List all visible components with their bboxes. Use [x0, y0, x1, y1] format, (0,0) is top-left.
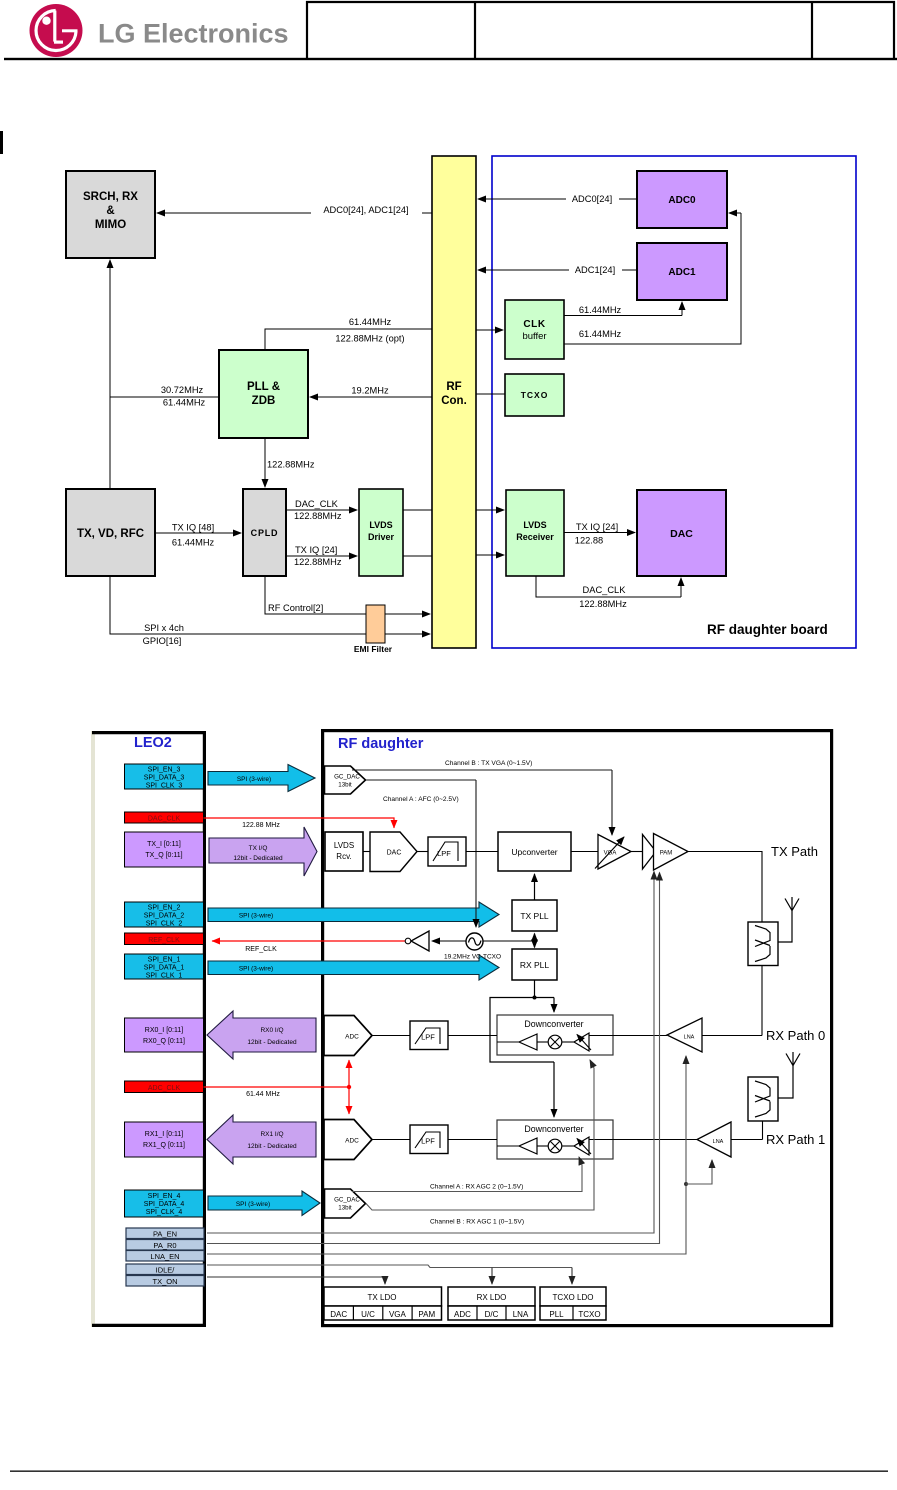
- svg-text:DAC: DAC: [330, 1310, 347, 1319]
- svg-text:LPF: LPF: [421, 1137, 435, 1146]
- block EMI Filter: [354, 605, 393, 654]
- wire RF connector to LVDS receiver: [476, 510, 504, 555]
- svg-text:SPI_DATA_2: SPI_DATA_2: [144, 913, 185, 920]
- svg-text:Rcv.: Rcv.: [336, 852, 351, 861]
- svg-text:SPI x 4ch: SPI x 4ch: [144, 623, 184, 633]
- wire LNA_EN control: [207, 1056, 712, 1254]
- svg-text:RX Path 1: RX Path 1: [766, 1132, 825, 1147]
- svg-text:PLL: PLL: [549, 1310, 564, 1319]
- svg-text:SPI (3-wire): SPI (3-wire): [239, 913, 273, 920]
- svg-text:LPF: LPF: [421, 1033, 435, 1042]
- svg-text:U/C: U/C: [361, 1310, 375, 1319]
- wire ADC0/ADC1 bus to SRCH: [157, 203, 432, 215]
- svg-text:12bit - Dedicated: 12bit - Dedicated: [247, 1039, 297, 1046]
- svg-text:122.88MHz (opt): 122.88MHz (opt): [335, 334, 404, 344]
- LEO2 frame: [91, 731, 206, 1327]
- svg-text:12bit - Dedicated: 12bit - Dedicated: [233, 855, 283, 862]
- svg-text:DAC: DAC: [670, 528, 693, 540]
- svg-text:Receiver: Receiver: [516, 532, 554, 542]
- amp LNA (RX1): [697, 1122, 731, 1157]
- bus arrow SPI (3-wire) #1: [208, 955, 499, 980]
- svg-text:LVDS: LVDS: [334, 841, 354, 850]
- RF daughter frame: [323, 731, 832, 1326]
- svg-text:&: &: [106, 205, 114, 217]
- svg-text:RX LDO: RX LDO: [477, 1293, 507, 1302]
- svg-text:SPI_EN_2: SPI_EN_2: [148, 905, 181, 912]
- block LVDS Receiver: [506, 490, 564, 576]
- svg-text:TX IQ [48]: TX IQ [48]: [172, 523, 214, 533]
- svg-text:SPI_CLK_4: SPI_CLK_4: [146, 1209, 183, 1216]
- converter DAC (TX): [370, 832, 417, 872]
- svg-text:VGA: VGA: [389, 1310, 407, 1319]
- wire TCXO to buffer: [432, 940, 466, 942]
- footer rule: [10, 1471, 888, 1472]
- converter GC_DAC 13bit (TX): [325, 766, 366, 794]
- svg-text:SPI_CLK_1: SPI_CLK_1: [146, 973, 183, 980]
- wire PLL to SRCH clocks: [110, 260, 219, 489]
- node DAC_CLK signal: [125, 812, 204, 823]
- wire CLK buffer to ADC1 61.44MHz: [564, 302, 682, 316]
- antenna (RX1): [778, 1052, 800, 1098]
- block RF Con. (yellow connector): [432, 156, 476, 648]
- wire RF Control[2]: [265, 576, 430, 614]
- svg-text:SPI_DATA_4: SPI_DATA_4: [144, 1201, 185, 1208]
- svg-text:RX0_I [0:11]: RX0_I [0:11]: [145, 1027, 183, 1034]
- svg-text:CLK: CLK: [523, 319, 546, 330]
- svg-text:LG Electronics: LG Electronics: [98, 19, 289, 49]
- svg-text:RX1_I [0:11]: RX1_I [0:11]: [145, 1131, 183, 1138]
- svg-text:GC_DAC: GC_DAC: [334, 1197, 360, 1204]
- svg-text:61.44MHz: 61.44MHz: [579, 329, 622, 339]
- svg-text:61.44 MHz: 61.44 MHz: [246, 1091, 280, 1098]
- svg-text:TX I/Q: TX I/Q: [249, 845, 268, 852]
- svg-text:LEO2: LEO2: [134, 735, 172, 751]
- wire REF_CLK (red): [212, 941, 405, 953]
- svg-text:RX PLL: RX PLL: [520, 960, 550, 970]
- wire duplexer to RX0 line: [761, 966, 763, 1036]
- svg-text:30.72MHz: 30.72MHz: [161, 385, 204, 395]
- node PA_EN: [126, 1228, 204, 1239]
- filter LPF (RX0): [410, 1021, 448, 1050]
- wire LPF to Upconverter: [466, 851, 498, 853]
- svg-text:Con.: Con.: [441, 395, 467, 407]
- node LNA_EN: [126, 1251, 204, 1262]
- buffer inverter (REF_CLK): [405, 931, 429, 951]
- svg-text:DAC: DAC: [387, 850, 402, 857]
- block TCXO LDO: [540, 1287, 606, 1320]
- filter LPF (RX1): [410, 1125, 448, 1154]
- wire TX PLL / RX PLL reference (double arrow): [534, 934, 536, 948]
- svg-text:LNA_EN: LNA_EN: [150, 1252, 179, 1261]
- svg-text:SPI (3-wire): SPI (3-wire): [236, 1201, 270, 1208]
- svg-text:TX_ON: TX_ON: [152, 1277, 177, 1286]
- svg-text:122.88: 122.88: [575, 536, 603, 546]
- block TX LDO: [324, 1287, 442, 1320]
- svg-text:GPIO[16]: GPIO[16]: [143, 636, 182, 646]
- svg-text:SPI_DATA_3: SPI_DATA_3: [144, 775, 185, 782]
- block LVDS Driver: [359, 489, 403, 576]
- block LVDS Rcv: [325, 832, 363, 871]
- svg-text:Driver: Driver: [368, 532, 395, 542]
- bus arrow TX I/Q dedicated: [209, 827, 317, 876]
- node REF_CLK signal: [125, 933, 204, 945]
- svg-text:ADC: ADC: [345, 1138, 359, 1145]
- left margin marker: [0, 131, 3, 154]
- svg-text:RF Control[2]: RF Control[2]: [268, 603, 323, 613]
- wire Channel B RX AGC 1: [366, 1060, 594, 1226]
- svg-text:PAM: PAM: [660, 851, 673, 857]
- svg-text:buffer: buffer: [522, 331, 546, 342]
- block TX, VD, RFC: [66, 489, 155, 576]
- wire ADC1 bus to RF connector: [478, 262, 637, 275]
- svg-text:ADC1[24]: ADC1[24]: [575, 265, 615, 275]
- header rule: [4, 58, 897, 60]
- block RX LDO: [448, 1287, 535, 1320]
- node SPI_3 signals: [125, 764, 204, 790]
- svg-text:TCXO LDO: TCXO LDO: [553, 1293, 594, 1302]
- svg-text:Channel A : AFC (0~2.5V): Channel A : AFC (0~2.5V): [383, 796, 459, 803]
- svg-text:122.88MHz: 122.88MHz: [294, 511, 342, 521]
- wire DAC_CLK loop to DAC: [536, 576, 681, 609]
- svg-text:TX_I [0:11]: TX_I [0:11]: [147, 841, 181, 848]
- wire DAC_CLK 122.88MHz (red): [204, 818, 395, 829]
- svg-text:PAM: PAM: [418, 1310, 435, 1319]
- bus arrow SPI (3-wire) #3: [208, 765, 315, 792]
- svg-text:TCXO: TCXO: [521, 390, 549, 400]
- svg-text:TCXO: TCXO: [578, 1310, 600, 1319]
- svg-text:SPI_DATA_1: SPI_DATA_1: [144, 965, 185, 972]
- svg-text:ADC0[24], ADC1[24]: ADC0[24], ADC1[24]: [323, 205, 408, 215]
- svg-text:ZDB: ZDB: [252, 395, 276, 407]
- svg-text:SRCH, RX: SRCH, RX: [83, 191, 138, 203]
- wire Channel A RX AGC 2: [352, 1157, 582, 1192]
- node IDLE/: [126, 1264, 204, 1275]
- bus arrow SPI (3-wire) #2: [208, 902, 499, 927]
- wire 19.2MHz to PLL: [310, 386, 432, 398]
- amp PAM: [643, 834, 689, 871]
- svg-text:TX IQ [24]: TX IQ [24]: [295, 545, 337, 555]
- svg-text:GC_DAC: GC_DAC: [334, 774, 360, 781]
- wire ADC0 bus to RF connector: [478, 191, 637, 204]
- LG logo: [30, 4, 83, 57]
- oscillator VC-TCXO: [444, 933, 501, 961]
- svg-text:DAC_CLK: DAC_CLK: [583, 585, 627, 595]
- svg-text:ADC1: ADC1: [668, 267, 696, 278]
- svg-text:SPI_EN_3: SPI_EN_3: [148, 767, 181, 774]
- wire LVDS receiver to DAC TX IQ: [564, 522, 635, 546]
- wire DAC to LPF: [417, 851, 428, 853]
- svg-text:Downconverter: Downconverter: [524, 1019, 583, 1029]
- wire PA_R0 control: [207, 873, 660, 1244]
- block TX PLL: [512, 900, 557, 931]
- wire VGA to PAM: [631, 851, 642, 853]
- node PA_R0: [126, 1240, 204, 1251]
- svg-text:RX1_Q [0:11]: RX1_Q [0:11]: [143, 1142, 185, 1149]
- svg-text:61.44MHz: 61.44MHz: [349, 317, 392, 327]
- block ADC1: [637, 243, 727, 300]
- RF daughter board frame (blue): [492, 156, 856, 648]
- svg-text:IDLE/: IDLE/: [156, 1266, 176, 1275]
- wire RX1 chain: [372, 1139, 763, 1141]
- wire ADC_CLK 61.44MHz (red): [204, 1060, 352, 1114]
- svg-text:PA_R0: PA_R0: [153, 1241, 176, 1250]
- wire PA_EN control: [207, 872, 654, 1234]
- amp LNA (RX0): [667, 1018, 702, 1052]
- svg-text:19.2MHz: 19.2MHz: [351, 386, 389, 396]
- block DAC: [637, 490, 726, 576]
- svg-text:ADC: ADC: [345, 1034, 359, 1041]
- converter ADC (RX0): [324, 1016, 372, 1056]
- svg-text:PA_EN: PA_EN: [153, 1230, 177, 1239]
- svg-text:RX Path 0: RX Path 0: [766, 1028, 825, 1043]
- svg-text:Channel A : RX AGC 2 (0~1.5V): Channel A : RX AGC 2 (0~1.5V): [430, 1184, 523, 1191]
- svg-text:RX1 I/Q: RX1 I/Q: [260, 1131, 283, 1138]
- wire 61.44MHz clock to PLL: [265, 317, 432, 350]
- svg-text:DAC_CLK: DAC_CLK: [148, 816, 181, 823]
- node SPI_2 signals: [125, 902, 204, 928]
- svg-text:LVDS: LVDS: [369, 520, 392, 530]
- svg-text:Channel B : RX AGC 1 (0~1.5V): Channel B : RX AGC 1 (0~1.5V): [430, 1219, 524, 1226]
- block PLL & ZDB: [219, 350, 308, 438]
- svg-text:Downconverter: Downconverter: [524, 1124, 583, 1134]
- svg-text:TX Path: TX Path: [771, 844, 818, 859]
- filter duplexer (TX/RX0): [748, 922, 778, 966]
- svg-text:ADC0: ADC0: [668, 195, 696, 206]
- converter ADC (RX1): [324, 1120, 372, 1160]
- svg-text:MIMO: MIMO: [95, 219, 126, 231]
- filter (RX1): [748, 1077, 778, 1121]
- svg-text:D/C: D/C: [485, 1310, 499, 1319]
- wire CPLD DAC_CLK to LVDS driver: [286, 499, 357, 521]
- wire SPI x 4ch GPIO[16]: [110, 576, 430, 646]
- block SRCH,RX & MIMO: [66, 171, 155, 258]
- wire PAM to antenna node: [688, 852, 762, 923]
- block CPLD: [243, 489, 286, 576]
- wire LVDS Rcv to DAC: [363, 851, 370, 853]
- svg-text:RX0 I/Q: RX0 I/Q: [260, 1027, 283, 1034]
- wire RX0 chain: [372, 1035, 762, 1037]
- svg-text:122.88MHz: 122.88MHz: [294, 557, 342, 567]
- svg-text:RF daughter board: RF daughter board: [707, 622, 828, 637]
- svg-text:SPI_CLK_3: SPI_CLK_3: [146, 783, 183, 790]
- svg-text:TX IQ [24]: TX IQ [24]: [576, 522, 618, 532]
- svg-text:CPLD: CPLD: [251, 528, 279, 538]
- svg-text:RX0_Q [0:11]: RX0_Q [0:11]: [143, 1038, 185, 1045]
- svg-text:TX LDO: TX LDO: [368, 1293, 397, 1302]
- block TCXO: [505, 374, 564, 416]
- bus arrow SPI (3-wire) #4: [208, 1191, 320, 1216]
- svg-text:LNA: LNA: [713, 1139, 724, 1145]
- block Downconverter 0: [497, 1015, 613, 1055]
- svg-text:122.88 MHz: 122.88 MHz: [242, 822, 280, 829]
- svg-text:13bit: 13bit: [338, 1205, 352, 1212]
- wire CLK buffer to ADC0 61.44MHz: [564, 213, 741, 344]
- svg-text:61.44MHz: 61.44MHz: [163, 398, 206, 408]
- amp VGA (TX): [595, 835, 631, 870]
- wire RF connector to TCXO: [476, 393, 505, 395]
- svg-text:13bit: 13bit: [338, 782, 352, 789]
- wire IDLE/ control: [207, 1265, 572, 1284]
- svg-text:Channel B : TX VGA (0~1.5V): Channel B : TX VGA (0~1.5V): [445, 760, 532, 767]
- svg-text:ADC_CLK: ADC_CLK: [148, 1085, 181, 1092]
- block Downconverter 1: [497, 1120, 613, 1159]
- wire PLL to CPLD 122.88MHz: [265, 438, 315, 487]
- svg-text:SPI_CLK_2: SPI_CLK_2: [146, 921, 183, 928]
- wire TX_ON control: [207, 1277, 385, 1284]
- svg-text:SPI (3-wire): SPI (3-wire): [237, 776, 271, 783]
- node RX0 I/Q signals: [125, 1018, 204, 1052]
- antenna (TX/RX0): [778, 897, 799, 942]
- converter GC_DAC 13bit (RX AGC): [325, 1189, 366, 1218]
- svg-text:TX_Q [0:11]: TX_Q [0:11]: [145, 852, 182, 859]
- block CLK buffer: [505, 300, 564, 359]
- node ADC_CLK signal: [125, 1081, 204, 1093]
- svg-text:122.88MHz: 122.88MHz: [267, 460, 315, 470]
- svg-text:REF_CLK: REF_CLK: [148, 937, 180, 944]
- svg-text:Upconverter: Upconverter: [511, 847, 557, 857]
- svg-text:REF_CLK: REF_CLK: [245, 946, 277, 953]
- bus arrow RX1 I/Q dedicated: [207, 1115, 316, 1164]
- wire Upconverter to VGA: [571, 851, 598, 853]
- bus arrow RX0 I/Q dedicated: [207, 1011, 316, 1059]
- svg-text:12bit - Dedicated: 12bit - Dedicated: [247, 1143, 297, 1150]
- block Upconverter: [498, 832, 571, 871]
- node SPI_1 signals: [125, 954, 204, 980]
- svg-text:61.44MHz: 61.44MHz: [172, 538, 215, 548]
- svg-text:EMI Filter: EMI Filter: [354, 644, 393, 654]
- svg-text:LNA: LNA: [684, 1035, 695, 1041]
- svg-text:SPI (3-wire): SPI (3-wire): [239, 966, 273, 973]
- wire RX PLL to downconverters: [490, 980, 554, 1117]
- wire TX IQ to CPLD: [155, 523, 241, 548]
- svg-text:TX, VD, RFC: TX, VD, RFC: [77, 528, 144, 540]
- svg-text:LVDS: LVDS: [523, 520, 546, 530]
- svg-text:ADC: ADC: [454, 1310, 471, 1319]
- svg-text:DAC_CLK: DAC_CLK: [295, 499, 339, 509]
- block ADC0: [637, 171, 727, 228]
- svg-text:LPF: LPF: [437, 849, 451, 858]
- wire TX PLL to Upconverter: [534, 874, 536, 900]
- svg-text:TX PLL: TX PLL: [520, 911, 549, 921]
- node RX1 I/Q signals: [125, 1122, 204, 1157]
- header table: [306, 1, 895, 58]
- svg-text:122.88MHz: 122.88MHz: [579, 599, 627, 609]
- wire Channel B TX VGA: [352, 760, 612, 835]
- svg-text:ADC0[24]: ADC0[24]: [572, 194, 612, 204]
- node SPI_4 signals: [125, 1190, 204, 1217]
- wire duplexer stub (RX1): [762, 1121, 764, 1140]
- filter LPF (TX): [428, 837, 466, 866]
- wire RF connector to CLK buffer: [476, 329, 503, 331]
- wire CPLD TX IQ to LVDS driver: [286, 545, 357, 567]
- node TX I/Q signals: [125, 832, 204, 867]
- wire Channel A AFC: [366, 780, 476, 927]
- svg-text:RF: RF: [446, 381, 461, 393]
- svg-text:SPI_EN_4: SPI_EN_4: [148, 1193, 181, 1200]
- svg-text:RF daughter: RF daughter: [338, 736, 424, 752]
- svg-text:61.44MHz: 61.44MHz: [579, 305, 622, 315]
- svg-text:LNA: LNA: [513, 1310, 529, 1319]
- svg-text:19.2MHz VC-TCXO: 19.2MHz VC-TCXO: [444, 954, 501, 961]
- node TX_ON: [126, 1276, 204, 1287]
- wire TCXO to PLL column: [483, 940, 535, 942]
- block RX PLL: [512, 949, 557, 980]
- svg-text:SPI_EN_1: SPI_EN_1: [148, 957, 181, 964]
- wire LVDS driver to RF connector: [403, 510, 432, 556]
- svg-text:PLL &: PLL &: [247, 381, 280, 393]
